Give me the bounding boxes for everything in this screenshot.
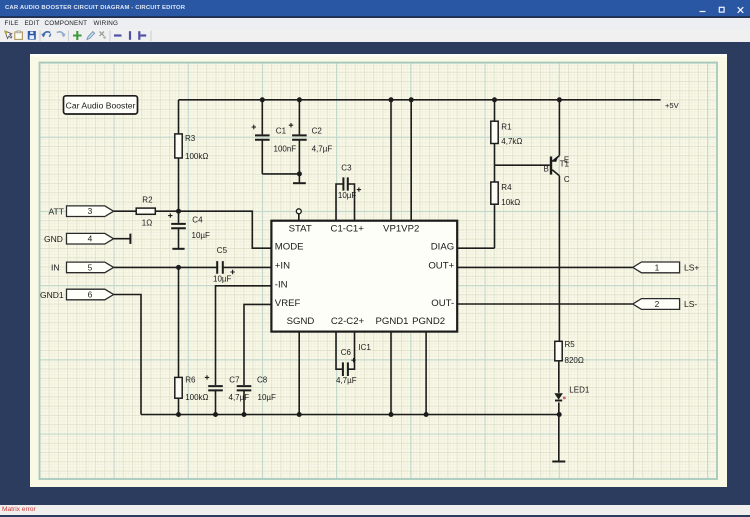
junction rail/C2	[297, 97, 302, 102]
svg-text:R1: R1	[501, 122, 512, 131]
schematic title box "Car Audio Booster"	[64, 96, 138, 114]
wire PGND2 to bus	[425, 332, 427, 415]
wire C1 down	[261, 140, 263, 174]
wire R6 to ground bus	[178, 398, 180, 414]
svg-text:R2: R2	[142, 196, 153, 205]
wire node to C4	[178, 211, 180, 223]
capacitor C1 plates	[255, 135, 270, 139]
wire OUT+ to LS+	[457, 266, 632, 268]
svg-text:R4: R4	[501, 183, 512, 192]
wire R5 to LED	[558, 361, 560, 393]
wire bus to ground	[558, 415, 560, 461]
status bar	[0, 505, 750, 515]
capacitor C4 plates	[171, 224, 186, 228]
canvas with schematic	[30, 54, 727, 487]
terminal bar below C1/C2	[293, 182, 306, 184]
wire STAT stub	[298, 214, 300, 221]
junction R2/R3/C4	[176, 209, 181, 214]
svg-text:5: 5	[88, 262, 93, 272]
svg-text:C1-C1+: C1-C1+	[331, 224, 365, 235]
polarity + C4	[168, 213, 172, 217]
svg-text:R5: R5	[565, 340, 576, 349]
connector pin 1 LS+	[633, 262, 680, 273]
svg-text:MODE: MODE	[275, 242, 304, 253]
wire rail to R3 top	[178, 100, 180, 134]
connector pin 4 GND	[67, 233, 114, 244]
wire C2- pin to C6	[336, 332, 343, 369]
wire VREF pin to C8	[244, 304, 271, 385]
capacitor C7 plates	[208, 386, 223, 390]
junction C1/C2	[297, 171, 302, 176]
resistor R5	[555, 341, 562, 361]
svg-text:VP1VP2: VP1VP2	[383, 224, 419, 235]
icon: plus green	[73, 31, 82, 40]
svg-text:IC1: IC1	[358, 343, 371, 352]
wire rail to R1	[494, 100, 496, 121]
wire ATT to R2	[114, 210, 137, 212]
resistor R3	[175, 134, 182, 158]
svg-text:E: E	[564, 155, 569, 164]
resistor R6	[175, 377, 182, 398]
navy strip below canvas	[0, 486, 750, 505]
junction rail/VP2	[409, 97, 414, 102]
polarity + C5	[230, 270, 234, 274]
capacitor C5 plates	[217, 261, 223, 274]
junction bus/LED	[557, 412, 562, 417]
svg-text:C1: C1	[276, 126, 287, 135]
svg-text:R6: R6	[185, 375, 196, 384]
wire -IN pin to C7	[216, 286, 272, 385]
wire R2 to node	[155, 210, 178, 212]
svg-text:+5V: +5V	[665, 101, 680, 110]
menu bar	[0, 16, 750, 18]
icon: wire minus	[114, 34, 122, 36]
junction rail/T1	[557, 97, 562, 102]
capacitor C8 plates	[237, 386, 252, 390]
canvas background	[30, 54, 727, 487]
wire R1 to base node	[494, 144, 496, 166]
junction bus/PGND1	[389, 412, 394, 417]
svg-text:10µF: 10µF	[192, 231, 211, 240]
svg-text:GND1: GND1	[40, 290, 64, 300]
svg-text:100kΩ: 100kΩ	[185, 393, 208, 402]
connector pin 3 ATT	[67, 206, 114, 217]
connector pin 2 LS-	[633, 299, 680, 310]
wire C8 to ground bus	[243, 390, 245, 414]
icon: undo	[43, 32, 50, 36]
wire C3 to C1+ pin	[348, 184, 355, 221]
toolbar	[0, 29, 750, 42]
svg-text:4,7µF: 4,7µF	[336, 376, 357, 385]
svg-text:GND: GND	[44, 234, 63, 244]
wire rail to C2	[298, 100, 300, 135]
wire SGND to bus	[298, 332, 300, 415]
icon: wire T	[139, 31, 146, 40]
svg-text:2: 2	[655, 299, 660, 309]
junction bus/C7	[213, 412, 218, 417]
wire PGND1 to bus	[390, 332, 392, 415]
svg-text:100nF: 100nF	[274, 145, 297, 154]
svg-text:STAT: STAT	[289, 224, 312, 235]
terminal bar below C4	[172, 248, 184, 250]
svg-text:4,7µF: 4,7µF	[312, 145, 333, 154]
svg-text:1Ω: 1Ω	[142, 219, 152, 228]
wire rail to VP1	[390, 100, 392, 221]
svg-text:C7: C7	[229, 375, 240, 384]
wire C6 to C2+ pin	[348, 332, 355, 369]
wire C7 to ground bus	[215, 390, 217, 414]
svg-text:10µF: 10µF	[258, 393, 277, 402]
wire C1 to C2 bottom	[262, 173, 299, 175]
wire R3 bottom to node	[178, 158, 180, 211]
wire DIAG pin	[457, 247, 494, 249]
resistor R4	[491, 182, 498, 204]
wire base	[495, 164, 550, 166]
capacitor C6 plates	[343, 362, 348, 376]
svg-text:C8: C8	[257, 375, 268, 384]
ground bus wire	[141, 414, 559, 416]
junction bus/C8	[242, 412, 247, 417]
svg-text:10kΩ: 10kΩ	[501, 198, 520, 207]
wire LED to bus	[558, 403, 560, 415]
connector pin 5 IN	[67, 262, 114, 273]
svg-text:OUT+: OUT+	[428, 261, 454, 272]
polarity + C1	[252, 125, 256, 129]
junction rail/R1	[492, 97, 497, 102]
svg-text:10µF: 10µF	[338, 191, 357, 200]
svg-text:C2: C2	[312, 126, 323, 135]
icon: select-pointer with pencil	[5, 31, 12, 39]
svg-text:1: 1	[655, 262, 660, 272]
ground terminal bar	[552, 461, 565, 463]
resistor R2	[136, 208, 155, 214]
wire rail to C1	[261, 100, 263, 135]
junction IN/R6	[176, 265, 181, 270]
junction rail/VP1	[389, 97, 394, 102]
window buttons	[690, 0, 750, 16]
wire GND to terminal bar	[114, 238, 130, 240]
svg-text:820Ω: 820Ω	[565, 356, 584, 365]
svg-text:C: C	[564, 175, 570, 184]
separators	[40, 31, 151, 42]
wire collector down to R5	[558, 176, 560, 341]
polarity + C3	[357, 187, 361, 191]
capacitor C3 plates	[343, 177, 347, 190]
wire OUT- to LS-	[457, 303, 632, 305]
LED1 diode	[554, 393, 563, 400]
svg-text:OUT-: OUT-	[431, 298, 454, 309]
grid area	[40, 63, 718, 480]
wire node to R6	[178, 267, 180, 377]
icon: delete-node x	[100, 32, 107, 40]
svg-text:IN: IN	[51, 263, 60, 273]
icon: pencil	[87, 32, 95, 40]
svg-text:ATT: ATT	[49, 206, 64, 216]
wire C4 to terminal bar	[178, 228, 180, 248]
drawing frame border	[40, 63, 718, 480]
junction rail/C1	[260, 97, 265, 102]
svg-text:C6: C6	[341, 348, 352, 357]
svg-text:C5: C5	[217, 246, 228, 255]
open terminal STAT	[296, 209, 301, 214]
svg-text:C4: C4	[192, 215, 203, 224]
polarity + C6	[351, 358, 355, 362]
svg-text:C3: C3	[341, 163, 352, 172]
wire R4 to DIAG row	[494, 204, 496, 248]
transistor T1	[550, 156, 560, 176]
polarity + C7	[205, 375, 209, 379]
wire node to MODE pin	[179, 211, 272, 248]
svg-text:3: 3	[88, 206, 93, 216]
icon: save floppy	[28, 31, 36, 40]
wire IN to C5	[114, 266, 217, 268]
junction bus/PGND2	[424, 412, 429, 417]
svg-text:DIAG: DIAG	[431, 242, 454, 253]
wire C5 to +IN pin	[223, 266, 272, 268]
svg-text:VREF: VREF	[275, 298, 301, 309]
svg-text:LED1: LED1	[569, 385, 590, 394]
svg-text:PGND1: PGND1	[375, 316, 408, 327]
wire base node to R4	[494, 165, 496, 182]
junction bus/R6	[176, 412, 181, 417]
wire C1- pin up to C3	[336, 184, 343, 221]
svg-text:+IN: +IN	[275, 261, 290, 272]
polarity + C2	[289, 123, 293, 127]
svg-text:R3: R3	[185, 134, 196, 143]
svg-text:10µF: 10µF	[213, 275, 232, 284]
LED1 light arrows	[563, 396, 566, 399]
junction bus/SGND	[297, 412, 302, 417]
svg-text:C2-C2+: C2-C2+	[331, 316, 365, 327]
svg-text:PGND2: PGND2	[412, 316, 445, 327]
icon: clipboard paste	[15, 31, 23, 40]
svg-text:B: B	[544, 165, 549, 174]
wire C2 down to bar	[298, 140, 300, 183]
svg-text:100kΩ: 100kΩ	[185, 152, 208, 161]
svg-text:4,7µF: 4,7µF	[229, 393, 250, 402]
svg-text:Car Audio Booster: Car Audio Booster	[66, 100, 136, 110]
terminal bar GND	[129, 234, 131, 244]
wire GND1 down to bus	[114, 295, 141, 415]
svg-text:LS+: LS+	[684, 263, 699, 273]
svg-text:LS-: LS-	[684, 299, 697, 309]
svg-text:-IN: -IN	[275, 280, 288, 291]
icon: redo	[57, 32, 64, 36]
wire rail to VP2	[410, 100, 412, 221]
op-amp IC1 TDA power amp box	[271, 221, 457, 332]
wire rail to emitter	[558, 100, 560, 156]
svg-text:6: 6	[88, 290, 93, 300]
svg-text:SGND: SGND	[287, 316, 315, 327]
capacitor C2 plates	[292, 135, 307, 139]
wire +5V rail	[179, 99, 661, 101]
svg-text:4,7kΩ: 4,7kΩ	[501, 137, 522, 146]
icon: wire vertical	[129, 31, 131, 40]
svg-text:4: 4	[88, 234, 93, 244]
title bar	[0, 0, 750, 16]
connector pin 6 GND1	[67, 289, 114, 300]
resistor R1	[491, 121, 498, 143]
